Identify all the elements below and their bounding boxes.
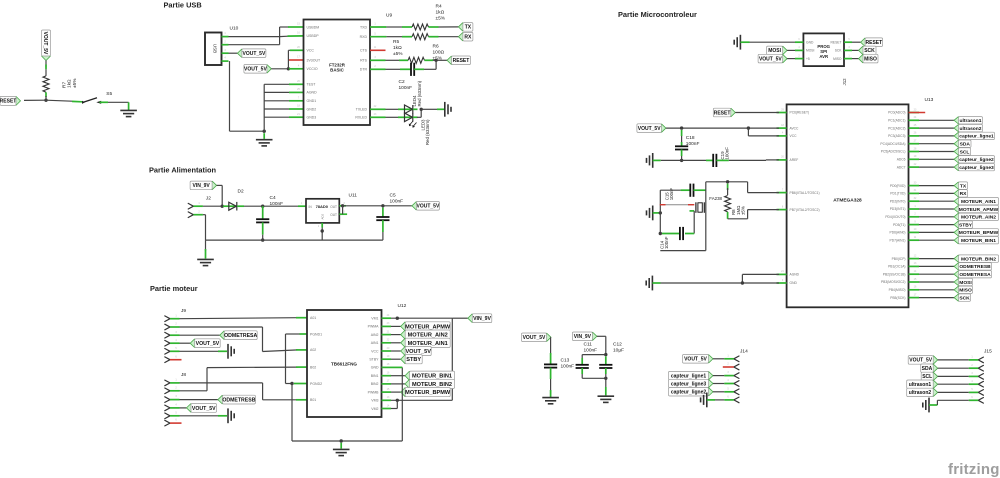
- svg-text:PC4(ADC4/SDA): PC4(ADC4/SDA): [880, 142, 905, 146]
- svg-text:TX: TX: [960, 183, 967, 189]
- svg-text:S5: S5: [106, 91, 112, 97]
- svg-text:C18: C18: [686, 135, 695, 141]
- capacitor C18: [681, 130, 683, 136]
- svg-text:PC6(RESET): PC6(RESET): [790, 111, 810, 115]
- svg-text:capteur_ligne3: capteur_ligne3: [959, 165, 994, 171]
- ground (moteur): [333, 449, 350, 455]
- svg-text:VOUT_5V: VOUT_5V: [759, 56, 782, 62]
- net label RX (U13): [919, 192, 954, 194]
- LED emission arrows: [410, 121, 417, 127]
- net label MOTEUR_AIN2: [391, 334, 401, 336]
- wire C13 to ground: [550, 368, 552, 379]
- net label MOTEUR_BIN2: [391, 383, 405, 385]
- svg-text:100nF: 100nF: [584, 348, 598, 354]
- svg-text:RESET: RESET: [0, 99, 16, 105]
- unrouted wire crystal pin1: [661, 204, 693, 206]
- svg-text:RESET: RESET: [714, 110, 731, 116]
- svg-text:C5: C5: [390, 193, 396, 199]
- svg-text:TX: TX: [465, 25, 472, 31]
- node junction C18 bottom: [680, 159, 683, 162]
- svg-text:SCL: SCL: [960, 149, 970, 155]
- node junction AGND/GND: [741, 281, 744, 284]
- ground (crystal, rotated left): [647, 206, 653, 221]
- LED LED3: [405, 113, 413, 122]
- net label VIN_9V (alim): [190, 181, 217, 190]
- pin J9-2: [165, 324, 170, 330]
- svg-text:VOUT_5V: VOUT_5V: [909, 358, 932, 364]
- svg-text:R6: R6: [433, 44, 439, 50]
- wire to J14.5: [713, 391, 724, 393]
- wire J2.1 to diode: [203, 205, 229, 207]
- svg-text:USBDM: USBDM: [307, 25, 320, 29]
- svg-text:RX: RX: [960, 191, 968, 197]
- unrouted stub 3V3OUT: [289, 59, 304, 61]
- crystal Y1 (FA238): [696, 202, 704, 213]
- wire R5 to RX tag: [429, 36, 439, 38]
- svg-text:capteur_ligne1: capteur_ligne1: [671, 373, 707, 379]
- svg-text:Partie moteur: Partie moteur: [150, 284, 198, 293]
- capacitor C11: [576, 365, 589, 368]
- net label MOTEUR_BIN1: [391, 375, 405, 377]
- pin J15-5: [978, 390, 983, 396]
- svg-text:C11: C11: [584, 342, 593, 348]
- svg-text:Red (633nm): Red (633nm): [425, 119, 430, 145]
- net label MOTEUR_BPMW (U13): [919, 231, 954, 233]
- node junction crystal gnd: [659, 211, 662, 214]
- node junction VIN/J2.1: [221, 205, 224, 208]
- wire J9.2 to A02 riser: [180, 326, 263, 328]
- wire to ground (C12): [605, 378, 607, 389]
- svg-text:VCC: VCC: [307, 49, 315, 53]
- wire ground rail (alim): [206, 239, 383, 241]
- svg-text:ODMETRESA: ODMETRESA: [959, 272, 991, 278]
- wire ultrason1 to J15.4: [938, 383, 969, 385]
- net label ultrason1: [919, 119, 954, 121]
- node junction C12 bottom: [604, 377, 607, 380]
- capacitor C14: [680, 227, 683, 240]
- svg-text:capteur_ligne2: capteur_ligne2: [671, 390, 707, 396]
- net label VOUT_5V (U13): [637, 124, 666, 133]
- ground (below S5): [120, 110, 137, 116]
- svg-text:VOUT_5V: VOUT_5V: [243, 51, 266, 57]
- svg-text:STBY: STBY: [959, 222, 973, 228]
- svg-text:ADJ: ADJ: [321, 213, 325, 219]
- net label ODMETRESA (U13): [919, 273, 954, 275]
- svg-text:VIN_9V: VIN_9V: [192, 183, 210, 189]
- svg-text:C2: C2: [399, 79, 405, 85]
- pin J8-2: [165, 388, 170, 394]
- IC U9 (FT232R BASIC): [304, 20, 371, 126]
- ground (J12, rotated left): [734, 35, 740, 50]
- pin leads U13 left: [777, 112, 787, 114]
- net label VOUT_5V (J12): [758, 54, 787, 63]
- svg-text:C4: C4: [270, 195, 276, 201]
- wire C19 to AREF: [716, 159, 728, 161]
- svg-text:Partie USB: Partie USB: [164, 0, 202, 9]
- pin J9-3: [165, 332, 170, 338]
- wire junction to switch S5: [46, 100, 72, 101]
- net label MOTEUR_AIN1: [391, 342, 401, 344]
- svg-text:±5%: ±5%: [436, 16, 446, 22]
- capacitor C4: [262, 206, 264, 219]
- node bendpoint ADJ: [321, 229, 324, 232]
- ground (C13): [542, 398, 559, 404]
- svg-text:BIN2: BIN2: [371, 382, 379, 386]
- node junction C5 top: [381, 204, 384, 207]
- wire R4 to TX tag: [429, 26, 439, 28]
- wire U12 GND down: [401, 367, 403, 441]
- svg-text:PD0(RXD): PD0(RXD): [890, 184, 906, 188]
- svg-text:ultrason1: ultrason1: [909, 382, 932, 388]
- wire AVCC junction to VCC: [747, 128, 749, 136]
- pin J2-2: [188, 212, 193, 218]
- svg-text:J9: J9: [181, 308, 186, 314]
- net label capteur_ligne1 (J14): [669, 371, 714, 379]
- net label SDA (J15): [921, 364, 938, 372]
- unrouted stub CTS: [370, 49, 386, 51]
- net label capteur_ligne2 (J14): [669, 388, 714, 396]
- pin J8-6 (unconnected): [165, 420, 170, 426]
- svg-text:OUT: OUT: [330, 213, 337, 217]
- net label capteur_ligne1: [919, 135, 954, 137]
- svg-text:SCK: SCK: [835, 49, 843, 53]
- svg-text:PC0(ADC0): PC0(ADC0): [888, 111, 905, 115]
- node junction GND bus: [263, 130, 266, 133]
- wire U10 pin2 to USBDM riser: [229, 44, 280, 46]
- wire D2 to C4 node: [237, 205, 244, 207]
- IC U12 (TB6612FNG): [307, 310, 382, 417]
- svg-text:VM2: VM2: [371, 407, 378, 411]
- wire VM2 riser: [396, 400, 398, 408]
- pin J15-6: [978, 398, 983, 404]
- wire VIN_9V to J2 pin1 line: [217, 184, 223, 186]
- wire crystal gnd vertical: [659, 190, 661, 233]
- LED LED4: [405, 105, 413, 114]
- wire DTR to C2: [370, 68, 386, 70]
- net label SCK (J12): [859, 46, 877, 55]
- net label MOSI (U13): [919, 281, 954, 283]
- svg-text:PWMB: PWMB: [368, 390, 380, 394]
- net label VOUT_5V (C13): [522, 333, 552, 342]
- svg-text:CTS: CTS: [360, 49, 368, 53]
- svg-text:100nF: 100nF: [725, 147, 730, 160]
- capacitor C2: [411, 63, 414, 76]
- wire TXD to R4: [370, 26, 386, 28]
- net label ODMETRESA: [180, 334, 220, 336]
- wire riser to USBDM: [279, 27, 281, 45]
- svg-text:PB6(XTAL1/TOSC1): PB6(XTAL1/TOSC1): [790, 191, 820, 195]
- wire J2.2 riser to rail: [203, 214, 206, 216]
- wire VIN rail to tag: [452, 317, 468, 319]
- net label SCL (J15): [921, 372, 938, 380]
- svg-text:J2: J2: [206, 196, 211, 202]
- svg-text:PD4(XCK/T0): PD4(XCK/T0): [885, 215, 905, 219]
- svg-text:±5%: ±5%: [72, 78, 78, 88]
- net label MOTEUR_AIN1 (U13): [919, 200, 954, 202]
- capacitor C15: [690, 184, 693, 197]
- svg-text:AREF: AREF: [790, 158, 799, 162]
- wire U10 pin1 to USBDP: [229, 36, 280, 38]
- net label VIN_9V (C11/C12): [572, 332, 597, 341]
- regulator U11 (78AD0): [306, 199, 339, 223]
- wire GND bus to ground: [263, 133, 265, 139]
- net label RESET (U13): [713, 108, 735, 117]
- svg-text:fritzing: fritzing: [948, 461, 1000, 478]
- wire header RESET to tag: [844, 41, 852, 43]
- wire GND bus vertical: [263, 84, 265, 131]
- wire PGND junction down to ground rail: [291, 384, 293, 442]
- net label MOTEUR_BPMW: [391, 391, 401, 393]
- wire C5 node to VOUT_5V tag: [383, 205, 412, 207]
- wire TEST to bus: [264, 83, 289, 85]
- svg-text:Red (633nm): Red (633nm): [417, 80, 422, 106]
- net label MOTEUR_BIN1 (U13): [919, 239, 954, 241]
- power label VOUT_5V (rotated, feeds R7): [42, 30, 51, 61]
- wire to J14.4: [713, 383, 724, 385]
- svg-text:ODMETRESB: ODMETRESB: [222, 397, 255, 403]
- node junction C18: [680, 126, 683, 129]
- ground (J9, rotated): [228, 344, 234, 359]
- svg-text:100nF: 100nF: [686, 141, 700, 147]
- net label SCL (U13): [919, 151, 954, 153]
- net label MOTEUR_BIN2 (U13): [919, 258, 954, 260]
- unrouted stub J14.2: [723, 366, 734, 368]
- svg-text:VOUT_5V: VOUT_5V: [244, 67, 267, 73]
- svg-text:STBY: STBY: [406, 357, 421, 363]
- svg-text:RTS: RTS: [360, 59, 368, 63]
- wire VOUT to J15.1: [938, 359, 969, 361]
- svg-text:ultrason1: ultrason1: [959, 118, 981, 124]
- svg-text:3V3OUT: 3V3OUT: [307, 58, 321, 62]
- svg-text:1kΩ: 1kΩ: [393, 45, 402, 51]
- ground (J8, rotated): [228, 408, 234, 423]
- svg-text:VOUT_5V: VOUT_5V: [405, 349, 431, 355]
- wire C11/C12 top link: [582, 354, 606, 356]
- svg-text:TEST: TEST: [307, 83, 317, 87]
- net label VOUT_5V (J9): [180, 342, 191, 344]
- svg-text:PD3(INT1): PD3(INT1): [890, 207, 906, 211]
- svg-text:MOSI: MOSI: [959, 280, 972, 286]
- wire TXLED to LED4: [370, 108, 386, 110]
- wire ground to J15.6: [929, 404, 937, 406]
- svg-text:VCC: VCC: [790, 134, 798, 138]
- wire OUT1 to C5 node: [339, 205, 346, 207]
- wire PGND1 riser: [300, 333, 308, 335]
- net label TX: [458, 23, 473, 32]
- wire XTAL1 top link: [706, 181, 748, 183]
- svg-text:VCC: VCC: [371, 349, 379, 353]
- pin J15-3: [978, 374, 983, 380]
- svg-text:VOUT_5V: VOUT_5V: [196, 341, 220, 347]
- svg-text:PB0(ICP): PB0(ICP): [892, 257, 906, 261]
- svg-text:PC2(ADC2): PC2(ADC2): [888, 126, 905, 130]
- svg-text:USB: USB: [213, 44, 218, 53]
- svg-text:AGND: AGND: [790, 273, 800, 277]
- svg-text:MOTEUR_AIN2: MOTEUR_AIN2: [408, 333, 448, 339]
- svg-text:PC1(ADC1): PC1(ADC1): [888, 119, 905, 123]
- connector U10 (USB): [205, 33, 222, 66]
- svg-text:RESET: RESET: [866, 40, 883, 46]
- wire rail to ground: [205, 240, 207, 251]
- wire C18 bottom to C19: [682, 159, 706, 161]
- svg-text:+5: +5: [806, 57, 810, 61]
- node bendpoint VM1: [396, 317, 399, 320]
- node junction PGND: [290, 382, 293, 385]
- svg-text:R5: R5: [393, 39, 399, 45]
- wire AGND to bus: [264, 91, 289, 93]
- svg-text:BASIC: BASIC: [330, 68, 344, 73]
- pin J9-6 (unconnected): [165, 357, 170, 363]
- svg-text:C13: C13: [561, 358, 570, 364]
- node junction VCC/VCCIO: [287, 67, 290, 70]
- svg-text:VOUT_5V: VOUT_5V: [523, 335, 546, 341]
- wire LEDs to ground: [413, 108, 418, 110]
- svg-text:Partie Microcontroleur: Partie Microcontroleur: [618, 10, 697, 19]
- svg-text:AIN1: AIN1: [371, 341, 379, 345]
- net label VOUT_5V (to VCCIO): [244, 65, 272, 74]
- svg-text:MOTEUR_BIN1: MOTEUR_BIN1: [961, 238, 996, 244]
- node junction C12 top: [604, 353, 607, 356]
- node junction C4 top: [261, 205, 264, 208]
- svg-text:SDA: SDA: [960, 141, 971, 147]
- pin J14-4: [734, 381, 739, 387]
- net label VOUT_5V (J14): [683, 355, 714, 364]
- net label SDA (U13): [919, 143, 954, 145]
- pin J9-1: [165, 316, 170, 322]
- svg-text:B02: B02: [310, 365, 316, 369]
- svg-text:capteur_ligne2: capteur_ligne2: [959, 157, 994, 163]
- svg-text:100nF: 100nF: [561, 363, 575, 369]
- wire VIN tag to C12 top: [597, 335, 606, 337]
- svg-text:RX: RX: [464, 35, 472, 41]
- net label RESET (USB): [447, 56, 471, 65]
- wire ground to GND pin: [652, 282, 660, 284]
- svg-text:AIN2: AIN2: [371, 333, 379, 337]
- svg-text:D2: D2: [238, 189, 244, 195]
- svg-text:ATMEGA328: ATMEGA328: [833, 198, 862, 204]
- wire crystal riser (XTAL1 / gnd loop): [705, 182, 707, 251]
- svg-text:SDA: SDA: [922, 366, 933, 372]
- net label SCK (U13): [919, 297, 954, 299]
- pin J15-4: [978, 381, 983, 387]
- ground (C18/C19, rotated left): [647, 153, 653, 168]
- connector J12 (PROG SPI AVR): [803, 33, 844, 66]
- svg-text:PB1(OC1A): PB1(OC1A): [888, 265, 905, 269]
- ground (LEDs, rotated): [445, 102, 451, 117]
- svg-text:DTR: DTR: [360, 68, 368, 72]
- wire R6 to RESET junction: [424, 59, 433, 61]
- wire XTAL1 to PB6: [747, 182, 749, 193]
- net label VOUT_5V (J15): [908, 356, 938, 365]
- wire R8 bottom link: [728, 218, 748, 220]
- net label capteur_ligne3: [919, 166, 954, 168]
- wire RXLED to LED3: [370, 116, 386, 118]
- svg-text:MOTEUR_BIN1: MOTEUR_BIN1: [412, 374, 452, 380]
- wire SDA to J15.2: [938, 367, 969, 369]
- svg-text:PB7(XTAL2/TOSC2): PB7(XTAL2/TOSC2): [790, 208, 820, 212]
- svg-text:MOTEUR_AIN1: MOTEUR_AIN1: [961, 199, 996, 205]
- wire C14 left: [662, 233, 680, 235]
- svg-text:PD5(T1): PD5(T1): [893, 223, 905, 227]
- wire junction riser to VCC: [287, 50, 289, 69]
- svg-text:U9: U9: [386, 13, 392, 19]
- svg-text:PGND1: PGND1: [310, 332, 322, 336]
- wire J9.5 to ground: [180, 350, 219, 352]
- pin J14-1: [734, 356, 739, 362]
- svg-text:78AD0: 78AD0: [316, 204, 329, 209]
- svg-text:PC5(ADC5/SCL): PC5(ADC5/SCL): [881, 150, 906, 154]
- wire VOUT_5V to VCCIO junction: [271, 68, 288, 70]
- net label MISO (J12): [859, 54, 879, 63]
- net label VOUT_5V (U12 VCC): [391, 350, 401, 352]
- wire J8.5 to ground: [180, 415, 219, 417]
- svg-text:U13: U13: [925, 97, 934, 103]
- wire VOUT_5V tag to R7: [45, 61, 47, 68]
- node junction C14 left: [659, 232, 662, 235]
- svg-text:FA238: FA238: [709, 196, 722, 201]
- svg-text:J8: J8: [181, 372, 186, 378]
- wire VOUT tag down to C13: [550, 337, 552, 355]
- svg-text:MOTEUR_BIN2: MOTEUR_BIN2: [412, 382, 452, 388]
- wire AGND link: [742, 273, 779, 275]
- svg-text:AGND: AGND: [307, 91, 318, 95]
- svg-text:RESET: RESET: [831, 40, 842, 44]
- pin J14-5: [734, 389, 739, 395]
- svg-text:AVCC: AVCC: [790, 126, 800, 130]
- svg-text:SCK: SCK: [959, 295, 970, 301]
- wire C4 node to regulator IN: [263, 205, 298, 207]
- wire +5 to header: [787, 58, 796, 60]
- svg-text:VCCIO: VCCIO: [307, 67, 318, 71]
- svg-text:U12: U12: [398, 303, 407, 309]
- svg-text:MOSI: MOSI: [768, 48, 781, 54]
- svg-text:TXD: TXD: [360, 25, 367, 29]
- svg-text:GND: GND: [806, 40, 814, 44]
- svg-text:capteur_ligne1: capteur_ligne1: [959, 134, 994, 140]
- node junction R8 top: [726, 180, 729, 183]
- node junction RTS/C2: [434, 59, 437, 62]
- net label capteur_ligne3 (J14): [669, 379, 714, 387]
- wire junction to VCCIO: [289, 68, 304, 70]
- pin J8-3: [165, 397, 170, 403]
- svg-text:VM1: VM1: [371, 317, 378, 321]
- pin J9-4: [165, 340, 170, 346]
- svg-text:SCK: SCK: [864, 48, 875, 54]
- svg-text:SCL: SCL: [922, 374, 932, 380]
- wire gnd loop bottom: [660, 250, 706, 252]
- svg-text:C12: C12: [613, 342, 622, 348]
- svg-text:PD2(INT0): PD2(INT0): [890, 199, 906, 203]
- wire C12 bottom: [605, 368, 607, 374]
- wire S5 to ground: [100, 101, 109, 103]
- capacitor C12: [605, 356, 607, 364]
- wire J9.1 to A01: [180, 318, 299, 319]
- node junction AVCC/VCC: [747, 126, 750, 129]
- wire C2 to junction riser: [414, 68, 424, 70]
- svg-text:1kΩ: 1kΩ: [67, 79, 73, 88]
- pin J2-1: [188, 203, 193, 209]
- net label MOTEUR_APMW (U13): [919, 208, 954, 210]
- net label TX (U13): [919, 185, 954, 187]
- svg-text:PD1(TXD): PD1(TXD): [890, 192, 905, 196]
- svg-text:ultrason2: ultrason2: [909, 390, 932, 396]
- svg-text:R7: R7: [62, 82, 68, 88]
- svg-text:PB2(SS/OC1B): PB2(SS/OC1B): [883, 272, 906, 276]
- capacitor C13: [544, 364, 557, 367]
- unrouted stub J8.6: [170, 422, 182, 424]
- svg-text:100nF: 100nF: [669, 188, 674, 201]
- svg-text:VIN_9V: VIN_9V: [574, 334, 592, 340]
